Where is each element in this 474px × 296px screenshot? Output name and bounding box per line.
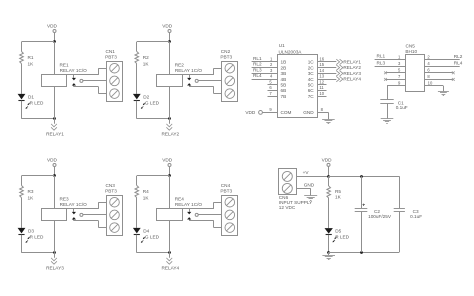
svg-text:1C: 1C [308, 60, 315, 65]
resistor R2 [135, 52, 139, 64]
net label RL1 wire to CN5 pin 1 [375, 59, 406, 61]
wire [22, 118, 55, 120]
wire [21, 176, 23, 186]
svg-text:RL3: RL3 [377, 60, 386, 65]
svg-text:2C: 2C [308, 65, 315, 70]
CN5 pin 10 wire to ground [425, 85, 444, 87]
svg-text:D1: D1 [28, 94, 34, 99]
svg-text:RE3: RE3 [60, 196, 70, 201]
svg-text:3B: 3B [281, 71, 287, 76]
svg-text:CN4: CN4 [221, 183, 231, 188]
svg-text:RELAY2: RELAY2 [343, 65, 361, 70]
LED D2 [133, 94, 141, 100]
wire [137, 252, 170, 254]
svg-text:RL1: RL1 [253, 56, 262, 61]
CN5 pin 5 no-connect [386, 72, 406, 74]
wire [21, 64, 23, 94]
node junction [327, 175, 330, 178]
svg-text:6C: 6C [308, 88, 315, 93]
ground [381, 118, 394, 120]
svg-text:11: 11 [319, 85, 324, 90]
wire [137, 118, 170, 120]
relay RE3 coil [54, 176, 56, 209]
wire [136, 101, 138, 119]
svg-text:ULN2003A: ULN2003A [279, 49, 303, 54]
svg-text:RL2: RL2 [454, 54, 463, 59]
net label RL4 wire to CN5 pin 4 [425, 66, 460, 68]
node junction [53, 117, 56, 120]
wire [98, 87, 100, 94]
svg-text:RELAY4: RELAY4 [343, 77, 361, 82]
wire U1 output 1C to net flag RELAY1 [317, 61, 336, 63]
LED D4 [133, 228, 141, 234]
svg-text:PBT3: PBT3 [220, 55, 232, 60]
wire [136, 64, 138, 94]
net flag RELAY2 [169, 119, 171, 124]
svg-text:RELAY3: RELAY3 [46, 266, 64, 271]
svg-text:RELAY3: RELAY3 [343, 71, 361, 76]
svg-text:1B: 1B [281, 60, 287, 65]
wire [328, 235, 330, 252]
svg-text:G LED: G LED [145, 234, 160, 239]
svg-text:R LED: R LED [30, 100, 44, 105]
node junction [53, 174, 56, 177]
relay RE2 coil [169, 42, 171, 75]
svg-text:12: 12 [319, 79, 324, 84]
resistor R4 [135, 186, 139, 198]
svg-text:VDD: VDD [245, 110, 256, 115]
wire ground rail [329, 252, 400, 254]
svg-text:CN2: CN2 [221, 49, 231, 54]
svg-text:VDD: VDD [322, 158, 333, 163]
svg-text:COM: COM [281, 110, 292, 115]
net flag RELAY4 [336, 76, 339, 81]
node junction [53, 40, 56, 43]
wire [213, 202, 215, 209]
svg-text:10: 10 [319, 91, 324, 96]
wire [136, 235, 138, 253]
node junction [168, 251, 171, 254]
wire [98, 202, 100, 209]
net flag RELAY1 [336, 59, 339, 64]
svg-text:D5: D5 [335, 229, 341, 234]
svg-text:3C: 3C [308, 71, 315, 76]
svg-text:RE2: RE2 [175, 62, 185, 67]
CN5 pin 9 wire to C1 [387, 85, 406, 87]
svg-text:VDD: VDD [47, 158, 58, 163]
svg-text:RL2: RL2 [253, 62, 262, 67]
svg-text:1K: 1K [28, 196, 35, 201]
resistor R5 [328, 176, 330, 186]
LED D5 [325, 228, 333, 234]
connector CN4 PBT3 [222, 196, 238, 236]
svg-text:GND: GND [303, 110, 314, 115]
net +V wire [297, 176, 329, 178]
wire [22, 41, 55, 43]
ground [438, 91, 449, 93]
U1 pin 6 stub [268, 90, 278, 92]
svg-text:RELAY 1C/O: RELAY 1C/O [175, 68, 203, 73]
wire [98, 221, 100, 228]
wire [137, 41, 170, 43]
svg-text:1K: 1K [335, 195, 342, 200]
wire [21, 235, 23, 253]
svg-text:7C: 7C [308, 94, 315, 99]
svg-text:RELAY4: RELAY4 [161, 266, 179, 271]
svg-text:2B: 2B [281, 65, 287, 70]
svg-text:13: 13 [319, 74, 324, 79]
svg-text:PBT3: PBT3 [105, 55, 117, 60]
CN5 pin 6 no-connect [425, 72, 454, 74]
ground [328, 252, 330, 255]
wire [21, 42, 23, 52]
node junction [327, 251, 330, 254]
relay RE4 coil [169, 176, 171, 209]
wire [136, 198, 138, 228]
net label RL2 wire to U1 pin 2 [252, 67, 278, 69]
svg-text:1K: 1K [28, 62, 35, 67]
svg-text:5C: 5C [308, 83, 315, 88]
ground [304, 195, 317, 197]
svg-text:CN3: CN3 [106, 183, 116, 188]
U1 GND pin 8 [317, 112, 328, 114]
svg-text:R1: R1 [28, 55, 34, 60]
wire VDD rail [329, 176, 400, 178]
wire [213, 68, 215, 75]
net flag RELAY2 [336, 65, 339, 70]
svg-text:R5: R5 [335, 189, 341, 194]
svg-text:16: 16 [319, 57, 324, 62]
node junction [168, 40, 171, 43]
svg-text:G LED: G LED [145, 100, 160, 105]
U1 pin 7 stub [268, 96, 278, 98]
svg-text:4B: 4B [281, 77, 287, 82]
net flag RELAY3 [336, 71, 339, 76]
wire [169, 33, 171, 42]
capacitor C1 [380, 99, 393, 101]
svg-text:7B: 7B [281, 94, 287, 99]
svg-text:15: 15 [319, 62, 324, 67]
wire U1 output 4C to net flag RELAY4 [317, 79, 336, 81]
svg-text:VDD: VDD [47, 24, 58, 29]
VDD symbol (relay block 3) [53, 164, 56, 167]
svg-text:0.1uF: 0.1uF [410, 214, 422, 219]
relay RE1 coil [54, 42, 56, 75]
svg-text:RL1: RL1 [377, 54, 386, 59]
wire [328, 198, 330, 228]
wire [21, 101, 23, 119]
svg-text:RELAY 1C/O: RELAY 1C/O [60, 202, 88, 207]
svg-text:R4: R4 [143, 189, 149, 194]
VDD symbol (power input) [327, 163, 330, 166]
wire U1 output 2C to net flag RELAY2 [317, 67, 336, 69]
svg-text:D2: D2 [143, 94, 149, 99]
resistor R1 [20, 52, 24, 64]
svg-text:VDD: VDD [162, 158, 173, 163]
net flag RELAY4 [169, 253, 171, 258]
svg-text:VDD: VDD [162, 24, 173, 29]
relay RE4 contacts [182, 208, 214, 210]
svg-text:D4: D4 [143, 228, 149, 233]
svg-text:RL4: RL4 [454, 61, 463, 66]
svg-text:R LED: R LED [335, 235, 349, 240]
wire U1 output 3C to net flag RELAY3 [317, 73, 336, 75]
svg-text:RELAY 1C/O: RELAY 1C/O [60, 68, 88, 73]
relay RE2 contacts [182, 74, 214, 76]
net label RL3 wire to U1 pin 3 [252, 73, 278, 75]
wire [21, 198, 23, 228]
svg-text:5B: 5B [281, 83, 287, 88]
net label RL3 wire to CN5 pin 3 [375, 66, 406, 68]
CN5 pin 7 no-connect [386, 79, 406, 81]
net label RL1 wire to U1 pin 1 [252, 61, 278, 63]
node junction [53, 251, 56, 254]
wire [98, 68, 100, 75]
svg-text:R LED: R LED [30, 234, 44, 239]
svg-text:RE1: RE1 [60, 62, 70, 67]
wire [169, 167, 171, 176]
U1 pin 5 stub [268, 84, 278, 86]
U1 pin 12 stub [317, 84, 327, 86]
svg-text:0.1uF: 0.1uF [396, 105, 408, 110]
svg-text:PBT3: PBT3 [105, 189, 117, 194]
wire [54, 33, 56, 42]
connector CN1 PBT3 [107, 62, 123, 102]
svg-text:CN1: CN1 [106, 49, 116, 54]
relay RE1 contacts [67, 74, 99, 76]
svg-text:CN5: CN5 [406, 44, 416, 49]
svg-text:RELAY 1C/O: RELAY 1C/O [175, 202, 203, 207]
svg-text:RL4: RL4 [253, 73, 262, 78]
svg-text:R3: R3 [28, 189, 34, 194]
connector CN2 PBT3 [222, 62, 238, 102]
U1 pin 10 stub [317, 96, 327, 98]
ground [322, 119, 335, 121]
svg-text:+V: +V [303, 170, 310, 175]
LED D1 [18, 94, 26, 100]
VDD symbol (relay block 4) [168, 164, 171, 167]
capacitor C2 100uF/25V [361, 176, 363, 208]
resistor R3 [20, 186, 24, 198]
svg-text:100uF/25V: 100uF/25V [368, 214, 392, 219]
svg-text:RELAY2: RELAY2 [161, 132, 179, 137]
CN5 pin 8 no-connect [425, 79, 454, 81]
svg-text:R2: R2 [143, 55, 149, 60]
relay RE3 contacts [67, 208, 99, 210]
svg-text:U1: U1 [279, 43, 285, 48]
svg-text:RELAY1: RELAY1 [46, 132, 64, 137]
wire [22, 175, 55, 177]
wire [54, 167, 56, 176]
net label RL2 wire to CN5 pin 2 [425, 59, 460, 61]
wire [387, 103, 389, 119]
wire [137, 175, 170, 177]
svg-text:D3: D3 [28, 228, 34, 233]
connector CN3 PBT3 [107, 196, 123, 236]
node junction [168, 117, 171, 120]
net flag RELAY1 [54, 119, 56, 124]
svg-text:14: 14 [319, 68, 324, 73]
svg-text:6B: 6B [281, 88, 287, 93]
VDD symbol (relay block 1) [53, 30, 56, 33]
svg-text:BH10: BH10 [405, 49, 417, 54]
connector CN6 INPUT SUPPLY [279, 169, 297, 195]
U1 COM pin 9 to VDD [259, 111, 263, 115]
svg-text:12 VDC: 12 VDC [279, 205, 296, 210]
svg-text:GND: GND [304, 183, 315, 188]
node junction [360, 175, 363, 178]
svg-text:1K: 1K [143, 196, 150, 201]
net GND wire [297, 188, 311, 190]
svg-text:RL3: RL3 [253, 67, 262, 72]
svg-text:1K: 1K [143, 62, 150, 67]
svg-text:4C: 4C [308, 77, 315, 82]
capacitor C3 0.1uF [399, 176, 401, 208]
LED D3 [18, 228, 26, 234]
U1 pin 11 stub [317, 90, 327, 92]
wire [22, 252, 55, 254]
net label RL4 wire to U1 pin 4 [252, 79, 278, 81]
node junction [168, 174, 171, 177]
net flag RELAY3 [54, 253, 56, 258]
wire [136, 42, 138, 52]
svg-text:10: 10 [428, 81, 433, 86]
svg-text:PBT3: PBT3 [220, 189, 232, 194]
svg-text:RELAY1: RELAY1 [343, 60, 361, 65]
wire [136, 176, 138, 186]
wire [213, 221, 215, 228]
node junction [360, 251, 363, 254]
VDD symbol (relay block 2) [168, 30, 171, 33]
wire [213, 87, 215, 94]
svg-text:RE4: RE4 [175, 196, 185, 201]
